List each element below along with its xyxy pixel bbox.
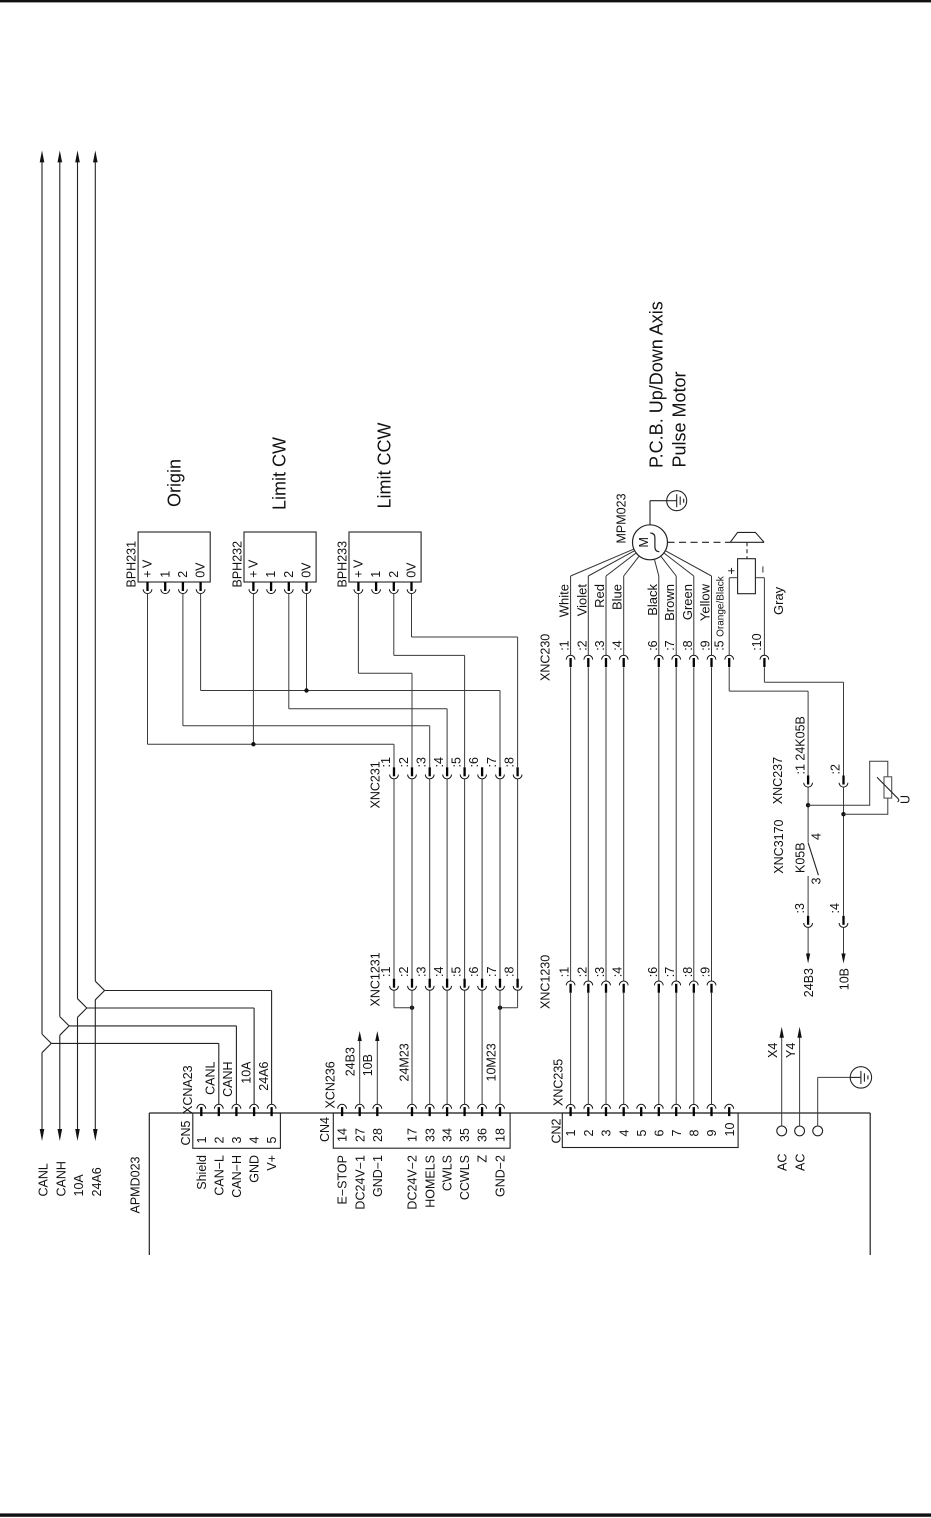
svg-text:GND−1: GND−1 bbox=[371, 1155, 385, 1197]
svg-text::2: :2 bbox=[397, 757, 411, 767]
svg-text:BPH231: BPH231 bbox=[125, 541, 139, 588]
svg-text:APMD023: APMD023 bbox=[129, 1156, 143, 1213]
svg-text::3: :3 bbox=[793, 903, 807, 913]
svg-text:10: 10 bbox=[723, 1123, 737, 1137]
svg-text::2: :2 bbox=[397, 967, 411, 977]
svg-text::6: :6 bbox=[646, 640, 660, 650]
svg-text:+ V: + V bbox=[247, 559, 261, 578]
svg-text:10M23: 10M23 bbox=[484, 1043, 498, 1081]
svg-text:U: U bbox=[899, 795, 913, 804]
svg-text:CN2: CN2 bbox=[550, 1118, 564, 1143]
svg-text:AC: AC bbox=[775, 1154, 789, 1171]
svg-text:1: 1 bbox=[195, 1137, 209, 1144]
svg-text:GND−2: GND−2 bbox=[494, 1155, 508, 1197]
svg-text:24B3: 24B3 bbox=[344, 1047, 358, 1076]
svg-text:28: 28 bbox=[371, 1128, 385, 1142]
svg-text::4: :4 bbox=[611, 640, 625, 650]
svg-text::6: :6 bbox=[467, 967, 481, 977]
svg-text:Blue: Blue bbox=[610, 584, 625, 610]
svg-text:4: 4 bbox=[810, 833, 824, 840]
svg-text::4: :4 bbox=[611, 967, 625, 977]
svg-text:33: 33 bbox=[423, 1128, 437, 1142]
svg-text::4: :4 bbox=[432, 757, 446, 767]
svg-text:AC: AC bbox=[794, 1154, 808, 1171]
svg-text:0V: 0V bbox=[194, 562, 208, 578]
svg-text:35: 35 bbox=[458, 1128, 472, 1142]
svg-text:4: 4 bbox=[617, 1130, 631, 1137]
svg-text:Yellow: Yellow bbox=[698, 583, 713, 621]
svg-text::8: :8 bbox=[681, 967, 695, 977]
svg-text::4: :4 bbox=[432, 967, 446, 977]
svg-text:1: 1 bbox=[564, 1130, 578, 1137]
svg-text:+: + bbox=[724, 567, 738, 574]
svg-text:14: 14 bbox=[336, 1128, 350, 1142]
svg-text:Pulse Motor: Pulse Motor bbox=[669, 371, 689, 467]
svg-text:CWLS: CWLS bbox=[441, 1155, 455, 1191]
svg-text:24A6: 24A6 bbox=[257, 1061, 271, 1090]
svg-text:XNC235: XNC235 bbox=[551, 1059, 565, 1106]
svg-text::7: :7 bbox=[485, 967, 499, 977]
svg-text::8: :8 bbox=[502, 967, 516, 977]
svg-text:DC24V−2: DC24V−2 bbox=[406, 1155, 420, 1210]
svg-text:+ V: + V bbox=[141, 559, 155, 578]
svg-text:1: 1 bbox=[264, 571, 278, 578]
svg-text:CN5: CN5 bbox=[179, 1120, 193, 1145]
svg-text::4: :4 bbox=[828, 903, 842, 913]
svg-text:GND: GND bbox=[248, 1155, 262, 1183]
svg-text:XNC1231: XNC1231 bbox=[369, 952, 383, 1006]
svg-text:2: 2 bbox=[387, 571, 401, 578]
svg-text::8: :8 bbox=[502, 757, 516, 767]
svg-text:Y4: Y4 bbox=[784, 1043, 798, 1058]
svg-text::5: :5 bbox=[449, 757, 463, 767]
svg-text:1: 1 bbox=[158, 571, 172, 578]
svg-text:10A: 10A bbox=[240, 1061, 254, 1084]
svg-text:18: 18 bbox=[494, 1128, 508, 1142]
svg-text:CANH: CANH bbox=[54, 1161, 68, 1196]
svg-text::2: :2 bbox=[829, 764, 843, 774]
svg-text:CCWLS: CCWLS bbox=[458, 1155, 472, 1200]
svg-text:XNC237: XNC237 bbox=[771, 757, 785, 804]
svg-text:CAN−H: CAN−H bbox=[230, 1155, 244, 1198]
svg-text:Limit CCW: Limit CCW bbox=[374, 422, 394, 508]
svg-text:CN4: CN4 bbox=[318, 1117, 332, 1142]
svg-text:HOMELS: HOMELS bbox=[423, 1155, 437, 1208]
svg-text:V+: V+ bbox=[265, 1155, 279, 1171]
svg-text:1: 1 bbox=[369, 571, 383, 578]
svg-text:9: 9 bbox=[705, 1130, 719, 1137]
svg-text:Gray: Gray bbox=[771, 586, 786, 615]
svg-text::10: :10 bbox=[750, 633, 764, 650]
svg-text:7: 7 bbox=[670, 1130, 684, 1137]
svg-text:Violet: Violet bbox=[574, 584, 589, 617]
svg-text:5: 5 bbox=[635, 1130, 649, 1137]
svg-text:MPM023: MPM023 bbox=[615, 493, 629, 543]
svg-text:2: 2 bbox=[582, 1130, 596, 1137]
svg-text:X4: X4 bbox=[766, 1043, 780, 1058]
svg-text:24B3: 24B3 bbox=[802, 968, 816, 997]
svg-text:XCN236: XCN236 bbox=[324, 1061, 338, 1108]
svg-text::1: :1 bbox=[558, 640, 572, 650]
svg-text::7: :7 bbox=[663, 640, 677, 650]
svg-text:10B: 10B bbox=[838, 968, 852, 990]
svg-text::2: :2 bbox=[575, 967, 589, 977]
svg-text:3: 3 bbox=[600, 1130, 614, 1137]
svg-text:Red: Red bbox=[592, 584, 607, 608]
svg-text:CAN−L: CAN−L bbox=[212, 1155, 226, 1196]
svg-text:DC24V−1: DC24V−1 bbox=[353, 1155, 367, 1210]
svg-text:P.C.B. Up/Down Axis: P.C.B. Up/Down Axis bbox=[647, 301, 667, 468]
svg-text:K05B: K05B bbox=[793, 842, 807, 873]
svg-text:Origin: Origin bbox=[165, 459, 185, 507]
svg-text::3: :3 bbox=[593, 640, 607, 650]
svg-text:2: 2 bbox=[282, 571, 296, 578]
svg-text:27: 27 bbox=[353, 1128, 367, 1142]
svg-text::9: :9 bbox=[699, 640, 713, 650]
svg-text:XNC3170: XNC3170 bbox=[772, 819, 786, 873]
svg-text:White: White bbox=[557, 584, 572, 617]
svg-text:34: 34 bbox=[441, 1128, 455, 1142]
svg-text:E−STOP: E−STOP bbox=[336, 1155, 350, 1204]
svg-text:3: 3 bbox=[230, 1137, 244, 1144]
svg-text:CANL: CANL bbox=[37, 1163, 51, 1196]
svg-text:XNC1230: XNC1230 bbox=[539, 955, 553, 1009]
svg-text:−: − bbox=[756, 566, 770, 573]
svg-text::3: :3 bbox=[593, 967, 607, 977]
svg-text:BPH232: BPH232 bbox=[231, 541, 245, 588]
svg-text:2: 2 bbox=[176, 571, 190, 578]
svg-text:Brown: Brown bbox=[662, 584, 677, 621]
svg-text:BPH233: BPH233 bbox=[336, 541, 350, 588]
svg-text:Green: Green bbox=[680, 584, 695, 620]
svg-text:24A6: 24A6 bbox=[90, 1167, 104, 1196]
svg-text:CANL: CANL bbox=[204, 1061, 218, 1094]
svg-text::8: :8 bbox=[681, 640, 695, 650]
svg-text::5 Orange/Black: :5 Orange/Black bbox=[713, 575, 727, 650]
svg-text:3: 3 bbox=[809, 878, 823, 885]
svg-text:XNC230: XNC230 bbox=[539, 634, 553, 681]
svg-text:XNC231: XNC231 bbox=[369, 761, 383, 808]
svg-text:10A: 10A bbox=[72, 1174, 86, 1197]
svg-text::3: :3 bbox=[415, 757, 429, 767]
svg-text:17: 17 bbox=[406, 1128, 420, 1142]
svg-text:4: 4 bbox=[248, 1137, 262, 1144]
svg-text:Limit CW: Limit CW bbox=[269, 437, 289, 510]
svg-text::6: :6 bbox=[646, 967, 660, 977]
svg-text::6: :6 bbox=[467, 757, 481, 767]
svg-text:Z: Z bbox=[476, 1155, 490, 1163]
svg-text::7: :7 bbox=[485, 757, 499, 767]
svg-text:M: M bbox=[637, 537, 651, 547]
svg-text::2: :2 bbox=[575, 640, 589, 650]
svg-text::5: :5 bbox=[449, 967, 463, 977]
svg-text:0V: 0V bbox=[300, 562, 314, 578]
svg-text:5: 5 bbox=[265, 1137, 279, 1144]
svg-text:2: 2 bbox=[212, 1137, 226, 1144]
svg-text:6: 6 bbox=[652, 1130, 666, 1137]
svg-text:10B: 10B bbox=[361, 1054, 375, 1076]
svg-text::9: :9 bbox=[699, 967, 713, 977]
svg-text:+ V: + V bbox=[352, 559, 366, 578]
svg-text:XCNA23: XCNA23 bbox=[181, 1065, 195, 1114]
svg-text:24M23: 24M23 bbox=[397, 1043, 411, 1081]
svg-text:8: 8 bbox=[687, 1130, 701, 1137]
svg-text::3: :3 bbox=[415, 967, 429, 977]
svg-text::7: :7 bbox=[663, 967, 677, 977]
svg-text::1: :1 bbox=[558, 967, 572, 977]
svg-text::1 24K05B: :1 24K05B bbox=[794, 716, 808, 774]
svg-text:Black: Black bbox=[645, 584, 660, 616]
svg-text:0V: 0V bbox=[405, 562, 419, 578]
svg-text:36: 36 bbox=[476, 1128, 490, 1142]
svg-text:CANH: CANH bbox=[221, 1062, 235, 1097]
svg-text:Shield: Shield bbox=[195, 1155, 209, 1190]
